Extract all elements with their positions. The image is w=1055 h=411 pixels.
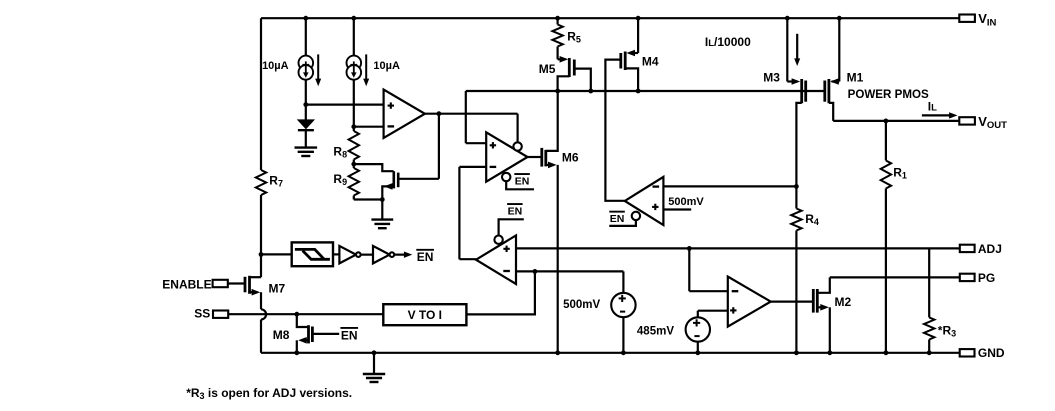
svg-text:M3: M3 [763,70,780,84]
svg-text:M7: M7 [269,281,286,295]
svg-text:V TO I: V TO I [408,308,442,322]
svg-text:EN: EN [610,213,625,225]
svg-text:M4: M4 [642,55,659,69]
svg-text:EN: EN [508,205,523,217]
svg-text:485mV: 485mV [637,325,674,337]
svg-text:500mV: 500mV [563,299,600,311]
svg-text:PG: PG [978,271,995,285]
svg-text:M8: M8 [273,328,290,342]
svg-text:*R3 is open for ADJ versions.: *R3 is open for ADJ versions. [186,386,352,401]
svg-text:EN: EN [341,328,358,342]
svg-text:ENABLE: ENABLE [162,278,211,292]
svg-text:M5: M5 [539,62,556,76]
svg-text:ADJ: ADJ [978,242,1002,256]
svg-text:M1: M1 [847,70,864,84]
svg-text:GND: GND [978,346,1005,360]
svg-text:M6: M6 [562,150,579,164]
svg-text:M2: M2 [835,295,852,309]
svg-text:IL: IL [928,100,937,114]
svg-text:EN: EN [515,175,530,187]
svg-text:POWER PMOS: POWER PMOS [848,88,929,101]
svg-text:EN: EN [417,250,434,264]
svg-text:10µA: 10µA [373,60,400,72]
svg-text:SS: SS [194,307,210,321]
svg-text:IL/10000: IL/10000 [705,35,751,49]
svg-text:10µA: 10µA [262,60,289,72]
svg-text:500mV: 500mV [668,196,704,208]
